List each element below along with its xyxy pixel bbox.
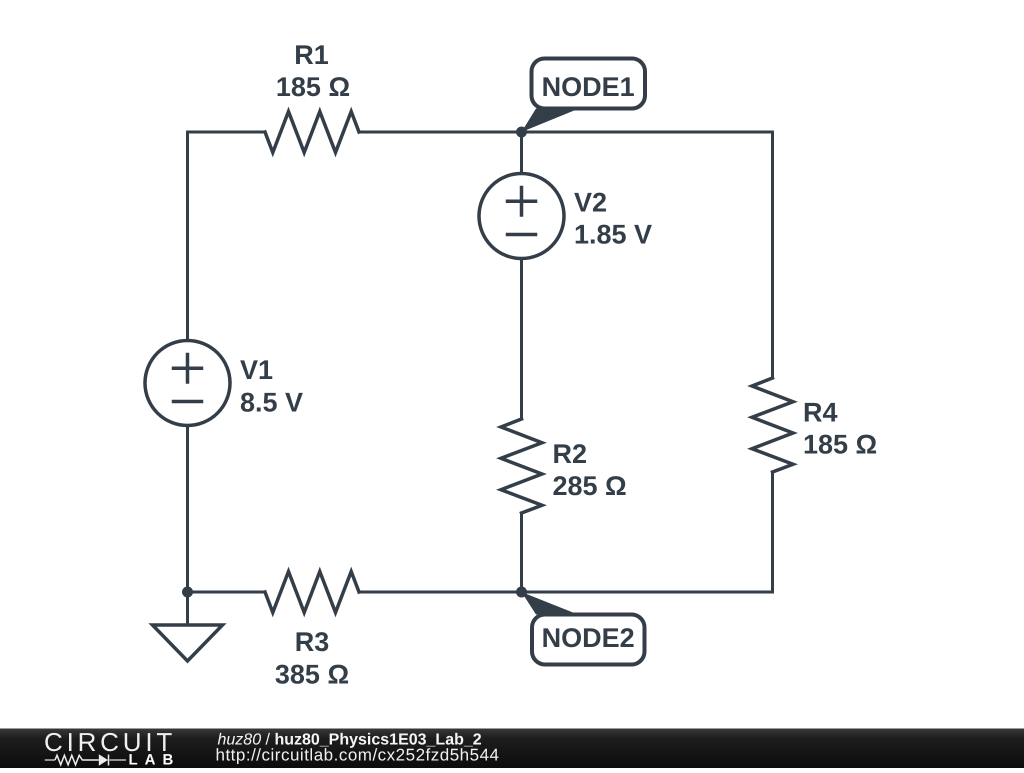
wire bottom-middle horizontal — [359, 591, 773, 594]
svg-text:285 Ω: 285 Ω — [553, 471, 627, 501]
resistor R1 — [265, 112, 359, 153]
label R2 value — [553, 439, 627, 501]
wire right rail upper — [771, 132, 774, 378]
svg-text:8.5 V: 8.5 V — [240, 387, 303, 417]
resistor R2 — [501, 419, 542, 513]
label V2 value — [574, 188, 652, 250]
label V1 value — [240, 355, 303, 417]
svg-text:1.85 V: 1.85 V — [574, 220, 652, 250]
svg-text:185 Ω: 185 Ω — [276, 72, 350, 102]
node flag NODE1 — [522, 59, 646, 133]
wire right rail lower — [771, 472, 774, 592]
ground — [153, 625, 223, 661]
svg-text:NODE2: NODE2 — [542, 623, 635, 653]
wire R2 to node2 — [520, 513, 523, 592]
label R4 value — [803, 398, 877, 460]
svg-text:385 Ω: 385 Ω — [275, 660, 349, 690]
label R3 value — [275, 627, 349, 690]
wire node1 to V2 — [520, 132, 523, 174]
svg-text:R2: R2 — [553, 439, 588, 469]
svg-text:R1: R1 — [294, 40, 329, 70]
CircuitLab logo resistor-diode symbol — [45, 759, 126, 761]
wire top-middle horizontal — [359, 131, 773, 134]
svg-text:LAB: LAB — [129, 751, 181, 768]
wire top-left horizontal — [188, 131, 266, 134]
node junction dot NODE1 — [516, 127, 527, 138]
wire ground stub — [186, 592, 189, 625]
wire left rail lower — [186, 426, 189, 593]
svg-text:R4: R4 — [803, 398, 838, 428]
wire left rail upper — [186, 132, 189, 341]
resistor R4 — [752, 378, 793, 472]
node junction dot NODE2 — [516, 587, 527, 598]
svg-text:R3: R3 — [295, 627, 330, 657]
svg-text:V2: V2 — [574, 188, 607, 218]
svg-text:NODE1: NODE1 — [542, 72, 635, 102]
label R1 value — [276, 40, 350, 102]
svg-text:http://circuitlab.com/cx252fzd: http://circuitlab.com/cx252fzd5h544 — [216, 746, 500, 765]
voltage source V2 — [479, 174, 564, 259]
wire bottom-left horizontal — [188, 591, 266, 594]
svg-text:V1: V1 — [240, 355, 273, 385]
resistor R3 — [265, 572, 359, 613]
svg-text:185 Ω: 185 Ω — [803, 430, 877, 460]
node junction dot ground — [182, 587, 193, 598]
voltage source V1 — [145, 341, 230, 426]
node flag NODE2 — [522, 592, 645, 665]
wire V2 to R2 — [520, 259, 523, 420]
